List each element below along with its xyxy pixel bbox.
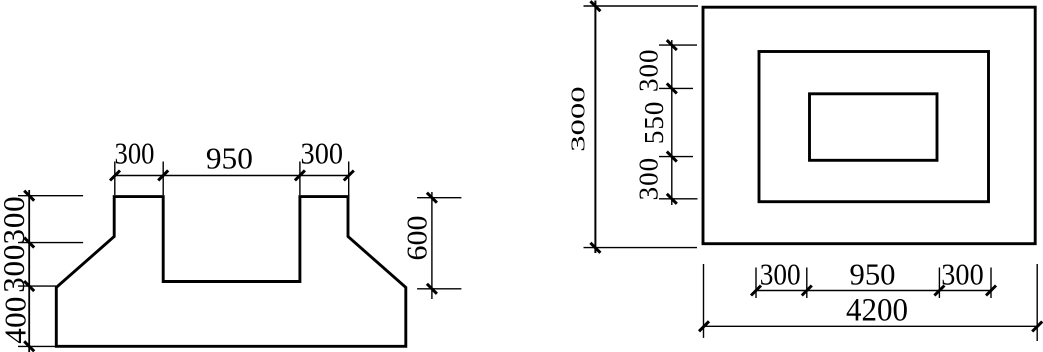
plan row1 tick 1: [751, 286, 761, 296]
plan inner chain dimension line: [671, 40, 673, 205]
right extension line bottom: [417, 288, 461, 290]
svg-text:950: 950: [850, 257, 896, 292]
right dimension line 600: [431, 192, 433, 299]
right tick top: [427, 193, 437, 203]
plan chain tick 1: [667, 40, 677, 50]
svg-text:400: 400: [0, 296, 32, 343]
left tick 2: [24, 238, 34, 248]
left tick 4: [24, 341, 34, 351]
plan chain extension line 1: [659, 44, 697, 46]
plan row1 extension line 3: [938, 268, 940, 299]
right extension line top: [417, 197, 461, 199]
plan bottom row2 dimension line 4200: [704, 325, 1039, 327]
plan inner rectangle: [810, 94, 938, 161]
svg-text:4200: 4200: [846, 293, 908, 329]
svg-text:300: 300: [760, 257, 801, 292]
top dimension line: [115, 175, 349, 177]
plan row1 extension line 1: [755, 268, 757, 299]
left extension line 2: [18, 242, 83, 244]
left tick 1: [24, 191, 34, 201]
svg-text:300: 300: [941, 257, 983, 292]
plan chain extension line 2: [659, 87, 693, 89]
svg-text:300: 300: [634, 157, 664, 201]
plan chain tick 4: [667, 194, 677, 204]
svg-text:550: 550: [639, 101, 669, 144]
plan row1 tick 2: [802, 286, 812, 296]
plan chain tick 3: [667, 152, 677, 162]
plan row2 tick right: [1032, 322, 1042, 332]
plan row1 tick 3: [934, 286, 944, 296]
svg-text:300: 300: [0, 244, 31, 293]
plan row2 extension line left: [703, 264, 705, 338]
plan middle rectangle: [759, 52, 989, 202]
svg-text:300: 300: [301, 136, 344, 171]
left extension line 3: [18, 285, 56, 287]
right tick bottom: [427, 284, 437, 294]
left tick 3: [24, 281, 34, 291]
svg-text:300: 300: [634, 49, 664, 93]
plan outer rectangle: [703, 7, 1035, 244]
plan row1 extension line 4: [990, 268, 992, 299]
top tick 3: [295, 170, 305, 180]
plan chain tick 2: [667, 83, 677, 93]
svg-text:600: 600: [402, 216, 433, 261]
top extension line c: [299, 162, 301, 196]
plan row2 tick left: [699, 321, 709, 331]
svg-text:300: 300: [0, 196, 31, 245]
plan 3000 tick top: [590, 1, 600, 11]
plan 3000 extension line bottom: [584, 247, 698, 249]
top tick 1: [110, 171, 120, 181]
svg-text:3000: 3000: [566, 86, 589, 152]
top extension line a: [114, 162, 116, 196]
plan row2 extension line right: [1036, 264, 1038, 341]
left extension line 4: [18, 345, 57, 347]
top extension line d: [348, 162, 350, 197]
top tick 4: [344, 171, 354, 181]
top extension line b: [162, 162, 164, 196]
left dimension line: [28, 190, 30, 352]
svg-text:950: 950: [206, 141, 253, 176]
plan chain extension line 4: [659, 198, 698, 200]
svg-text:300: 300: [115, 136, 155, 171]
top tick 2: [158, 170, 168, 180]
plan chain extension line 3: [659, 156, 693, 158]
foundation cross-section outline: [56, 197, 406, 347]
plan 3000 dimension line: [594, 1, 596, 254]
plan bottom row1 dimension line: [756, 290, 992, 292]
plan row1 extension line 2: [806, 268, 808, 299]
plan row1 tick 4: [986, 286, 996, 296]
plan 3000 tick bottom: [590, 243, 600, 253]
left extension line 1: [18, 195, 83, 197]
plan 3000 extension line top: [584, 5, 699, 7]
